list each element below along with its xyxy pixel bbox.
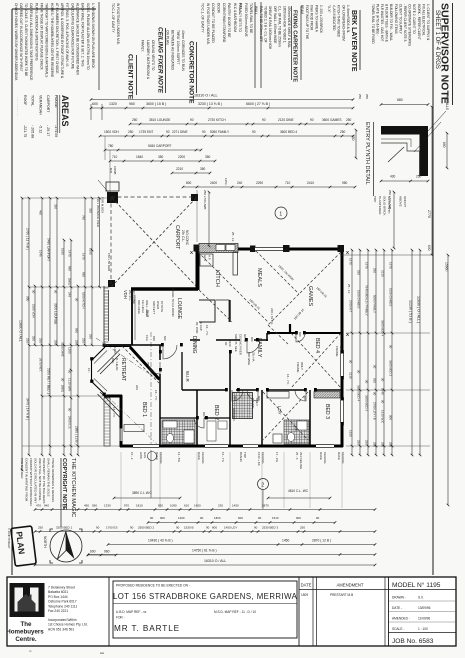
dashed diag games east <box>299 252 341 294</box>
svg-text:DATE: DATE <box>301 583 312 588</box>
svg-text:90: 90 <box>54 290 58 294</box>
svg-text:Balcatta 6021: Balcatta 6021 <box>48 590 68 594</box>
svg-text:MODEL N° 1195: MODEL N° 1195 <box>392 581 441 589</box>
border frame right <box>432 0 434 575</box>
dashed diag meals <box>199 290 232 322</box>
carport pier ne <box>191 194 198 201</box>
svg-text:14750 ( 61 ⅝ B ): 14750 ( 61 ⅝ B ) <box>192 549 217 553</box>
svg-text:SHALL REMAIN THE SOLE: SHALL REMAIN THE SOLE <box>47 458 51 497</box>
svg-text:600: 600 <box>90 550 96 554</box>
svg-text:90: 90 <box>262 118 266 122</box>
svg-text:15660: 15660 <box>445 262 449 272</box>
wall mid horizontal y345 west <box>121 344 162 346</box>
dashed diag lobby <box>263 392 308 440</box>
svg-text:CARPORT: CARPORT <box>46 95 50 113</box>
svg-text:3150 DINE: 3150 DINE <box>61 342 65 357</box>
svg-text:250: 250 <box>39 338 43 343</box>
svg-text:NO CONC: NO CONC <box>132 290 136 305</box>
svg-text:90: 90 <box>68 408 72 412</box>
right chain <box>351 250 353 455</box>
svg-text:250: 250 <box>365 94 369 99</box>
bay corner blocks <box>103 344 106 347</box>
wall bed1 west <box>120 395 123 447</box>
retreat centre line diagonal <box>96 338 160 381</box>
stray scan marks <box>100 653 104 654</box>
svg-text:16 - 2: 16 - 2 <box>130 452 134 460</box>
svg-text:BRK LAYER NOTE: BRK LAYER NOTE <box>350 10 357 72</box>
svg-text:820: 820 <box>163 336 167 341</box>
separator lines <box>254 2 256 88</box>
svg-text:& CAP: & CAP <box>199 322 203 331</box>
svg-text:Fax 240 2221: Fax 240 2221 <box>48 609 68 613</box>
wall house top <box>194 248 343 251</box>
door jamb blocks <box>161 343 164 346</box>
svg-text:16 - 7⅞: 16 - 7⅞ <box>221 452 225 462</box>
svg-text:1570: 1570 <box>365 262 369 269</box>
svg-text:960: 960 <box>26 296 30 302</box>
svg-text:FAMILY: FAMILY <box>256 338 262 358</box>
svg-text:ROOF: ROOF <box>23 95 27 106</box>
svg-text:AMENDED -: AMENDED - <box>392 617 410 621</box>
svg-text:BED 4: BED 4 <box>314 338 320 353</box>
svg-text:1820: 1820 <box>214 516 221 520</box>
svg-text:PLANS, ADDENDA & SPECIFICATION: PLANS, ADDENDA & SPECIFICATIONS <box>34 3 38 61</box>
svg-text:SCALE -: SCALE - <box>392 627 404 631</box>
header line <box>299 589 456 591</box>
svg-text:CLIENT TO SUPPLY: CLIENT TO SUPPLY <box>398 4 402 35</box>
svg-text:430: 430 <box>390 175 396 179</box>
svg-text:CONSENT IN WRITING FROM: CONSENT IN WRITING FROM <box>25 458 29 502</box>
svg-text:350: 350 <box>89 208 93 213</box>
svg-text:C.L. OF RAIL TO BE 250mm: C.L. OF RAIL TO BE 250mm <box>278 6 282 47</box>
svg-text:KITCH THRU TO BED: KITCH THRU TO BED <box>337 5 341 38</box>
svg-text:90: 90 <box>357 370 361 374</box>
svg-text:1640: 1640 <box>381 388 385 395</box>
svg-text:SCREEN: SCREEN <box>232 408 236 421</box>
north arrow pointer <box>66 531 75 559</box>
svg-text:3470 ( 14 ⅝ B ): 3470 ( 14 ⅝ B ) <box>26 398 30 420</box>
svg-text:BED 2: BED 2 <box>213 405 219 420</box>
svg-text:CEILING: CEILING <box>159 452 163 464</box>
svg-text:X: X <box>346 332 349 337</box>
carport pier sw <box>108 280 115 287</box>
wall retreat south <box>104 395 122 398</box>
svg-text:7 Delawney Street: 7 Delawney Street <box>48 586 75 590</box>
svg-text:HOMES / THE HOMEBUYERS CENTRE: HOMES / THE HOMEBUYERS CENTRE RESERVE <box>50 3 54 77</box>
svg-text:2271 DINE: 2271 DINE <box>172 130 188 134</box>
svg-text:16 -: 16 - <box>87 368 91 373</box>
svg-text:CEILING: CEILING <box>341 452 345 464</box>
svg-text:FORMAT WITHOUT EXPRESSED: FORMAT WITHOUT EXPRESSED <box>29 458 33 507</box>
svg-text:90: 90 <box>381 378 385 382</box>
svg-text:3890 C.L W.C: 3890 C.L W.C <box>132 491 152 495</box>
svg-text:4810 C.L. WC: 4810 C.L. WC <box>288 489 309 493</box>
door arc <box>163 345 177 359</box>
svg-text:600 LONG: 600 LONG <box>137 300 141 315</box>
svg-text:250: 250 <box>75 340 79 345</box>
svg-text:THRU' 100mm SOFFIT: THRU' 100mm SOFFIT <box>176 30 180 64</box>
svg-text:250: 250 <box>416 175 422 179</box>
kitchen gas hp box <box>200 254 213 266</box>
svg-text:820: 820 <box>250 337 254 342</box>
svg-text:250: 250 <box>357 440 361 445</box>
svg-text:2500 BED 2: 2500 BED 2 <box>138 526 155 530</box>
svg-text:FOLLOWING ITEMS: FOLLOWING ITEMS <box>394 4 398 34</box>
svg-text:250: 250 <box>82 338 86 343</box>
svg-text:6600 ( 27 ⅝ B ): 6600 ( 27 ⅝ B ) <box>246 102 270 106</box>
svg-text:250: 250 <box>357 270 361 275</box>
svg-text:W.I.R: W.I.R <box>185 371 190 382</box>
svg-text:2670 RET.: 2670 RET. <box>39 358 43 372</box>
svg-text:TO C.L. OF CAVITY: TO C.L. OF CAVITY <box>111 3 115 33</box>
svg-text:BETWEEN AS INDICATED: BETWEEN AS INDICATED <box>171 30 175 70</box>
svg-text:OVER: OVER <box>156 301 160 309</box>
svg-text:250: 250 <box>381 442 385 447</box>
border frame top-left segment <box>12 8 96 10</box>
svg-text:AMENDMENT: AMENDMENT <box>337 583 364 588</box>
svg-text:GAS: GAS <box>143 452 147 458</box>
title block dividers date/amendment/model <box>298 577 300 646</box>
svg-text:490: 490 <box>84 504 89 508</box>
svg-text:ENTRY PLYNTH DETAIL: ENTRY PLYNTH DETAIL <box>364 122 370 185</box>
wall retreat ne diagonal <box>130 347 160 380</box>
svg-text:17 - 2⅝: 17 - 2⅝ <box>275 452 279 462</box>
left chain <box>56 198 58 345</box>
dashed diag games-family <box>268 294 299 325</box>
svg-text:ACN 051 346 591: ACN 051 346 591 <box>48 627 74 631</box>
svg-text:SOLD OR CIRCULATED IN ANY: SOLD OR CIRCULATED IN ANY <box>33 458 37 503</box>
svg-text:1500 VDH: 1500 VDH <box>104 130 119 134</box>
svg-text:CONDUIT TO BE PLACED: CONDUIT TO BE PLACED <box>211 3 215 43</box>
svg-text:13/09/96: 13/09/96 <box>418 606 431 610</box>
svg-text:90: 90 <box>316 516 320 520</box>
right chain <box>391 250 393 455</box>
svg-text:Centre.: Centre. <box>15 636 37 643</box>
door arc <box>247 390 258 401</box>
svg-text:FLR WASTES - GAS HOT: FLR WASTES - GAS HOT <box>380 4 384 41</box>
door arc <box>247 340 260 353</box>
svg-text:SOLID BRICK: SOLID BRICK <box>382 196 386 217</box>
wall kitchen west <box>196 245 200 290</box>
svg-text:350: 350 <box>54 204 58 209</box>
svg-text:2870: 2870 <box>262 504 269 508</box>
svg-text:90: 90 <box>75 298 79 302</box>
svg-text:HOUSE: HOUSE <box>54 95 58 108</box>
dashed diag bed4 <box>291 333 341 388</box>
svg-text:230: 230 <box>218 504 223 508</box>
svg-text:3130: 3130 <box>349 372 353 379</box>
svg-text:ABOVE: ABOVE <box>398 196 402 207</box>
svg-text:350: 350 <box>205 155 211 159</box>
wall house east <box>341 248 344 447</box>
svg-text:25 - 13: 25 - 13 <box>347 284 351 294</box>
svg-text:470: 470 <box>36 504 41 508</box>
svg-text:950: 950 <box>351 135 355 141</box>
svg-text:TO C.L. OF CAVITY: TO C.L. OF CAVITY <box>201 3 205 33</box>
entry plynth detail L walls <box>381 126 428 135</box>
svg-text:900: 900 <box>389 415 393 420</box>
svg-text:PANTRY DOOR TO BE: PANTRY DOOR TO BE <box>227 3 231 38</box>
svg-text:2290: 2290 <box>256 181 263 185</box>
svg-text:294 CEILING: 294 CEILING <box>299 452 303 470</box>
svg-text:1320: 1320 <box>109 102 117 106</box>
svg-text:5050 FAMILY: 5050 FAMILY <box>210 130 230 134</box>
svg-text:820: 820 <box>298 332 302 337</box>
dashed diag games west <box>256 251 299 294</box>
svg-text:460: 460 <box>39 210 43 215</box>
svg-text:250: 250 <box>132 118 138 122</box>
svg-text:FRAME: FRAME <box>251 398 255 409</box>
svg-text:12830 ( O / ALL ): 12830 ( O / ALL ) <box>417 296 421 323</box>
svg-text:3200 BED 1: 3200 BED 1 <box>56 526 73 530</box>
left chain <box>84 198 86 345</box>
svg-text:W.C: W.C <box>294 426 298 431</box>
svg-text:3600 BED 4: 3600 BED 4 <box>280 130 297 134</box>
svg-text:820: 820 <box>303 396 307 401</box>
svg-text:-5.12: -5.12 <box>38 125 42 133</box>
svg-text:3600 GAMES: 3600 GAMES <box>322 118 342 122</box>
door arc <box>295 390 306 401</box>
logo house silhouette <box>18 594 36 612</box>
svg-text:90: 90 <box>32 290 36 294</box>
left chain <box>91 198 93 345</box>
fh walls leader lines <box>428 111 446 131</box>
svg-text:MEALS: MEALS <box>256 268 262 287</box>
bath tiled floor <box>233 393 253 419</box>
svg-text:THE RIGHT TO VARY DIMENSIONS &: THE RIGHT TO VARY DIMENSIONS & MATERIALS <box>45 3 49 77</box>
carport X diagonals <box>112 198 196 286</box>
svg-text:X: X <box>346 250 349 255</box>
svg-text:250: 250 <box>54 340 58 345</box>
svg-text:ONLY: ONLY <box>300 362 304 370</box>
svg-text:1450: 1450 <box>232 504 239 508</box>
left chain <box>63 240 65 455</box>
svg-text:250 x 50 HWB: 250 x 50 HWB <box>388 190 392 209</box>
left chain <box>28 198 30 455</box>
hws gas circle <box>148 452 157 461</box>
svg-text:350: 350 <box>158 155 164 159</box>
model cell row lines <box>389 600 457 602</box>
svg-text:OF LONGREACH FROM: OF LONGREACH FROM <box>341 5 345 41</box>
svg-text:590: 590 <box>92 504 97 508</box>
svg-text:800: 800 <box>212 526 217 530</box>
svg-text:450mm WIDE SHELF & RAIL: 450mm WIDE SHELF & RAIL <box>287 6 291 48</box>
svg-text:250: 250 <box>346 118 352 122</box>
svg-text:90: 90 <box>61 378 65 382</box>
door arc <box>148 362 160 374</box>
svg-text:MR T. BARTLE: MR T. BARTLE <box>114 624 180 633</box>
circle note 1 <box>275 207 287 219</box>
svg-text:940: 940 <box>44 504 49 508</box>
svg-text:90: 90 <box>206 526 210 530</box>
svg-text:5050 FAMILY: 5050 FAMILY <box>373 295 377 313</box>
svg-text:W.C & BATHROOM: W.C & BATHROOM <box>233 3 237 32</box>
svg-text:FIX ALL ELECTRICAL: FIX ALL ELECTRICAL <box>421 4 425 36</box>
svg-text:90: 90 <box>389 345 393 349</box>
svg-text:- REFER CLIENT NOTE 3.: - REFER CLIENT NOTE 3. <box>403 4 407 42</box>
svg-text:250: 250 <box>365 440 369 445</box>
svg-text:CORINTHIAN STANFORD: CORINTHIAN STANFORD <box>222 3 226 43</box>
svg-text:GAMES: GAMES <box>307 286 313 306</box>
svg-text:CALCULATING CLEARANCES FOR FUT: CALCULATING CLEARANCES FOR FUTURE <box>70 3 74 69</box>
svg-text:CHOICE HOMES / WORKS BY OWNER: CHOICE HOMES / WORKS BY OWNER ADDENDUM. <box>14 3 18 81</box>
svg-text:250 x 50 HWB: 250 x 50 HWB <box>203 190 207 209</box>
svg-text:680: 680 <box>397 98 403 102</box>
svg-text:1450: 1450 <box>282 539 290 543</box>
svg-text:970: 970 <box>124 504 129 508</box>
svg-text:CEILING FIXER NOTE: CEILING FIXER NOTE <box>157 27 164 94</box>
svg-text:RAKE: RAKE <box>319 452 323 460</box>
svg-text:2400 E.S.: 2400 E.S. <box>68 416 72 429</box>
svg-text:1450 LDY: 1450 LDY <box>224 526 237 530</box>
svg-text:COPYRIGHT NOTE: COPYRIGHT NOTE <box>61 458 67 510</box>
svg-text:600: 600 <box>92 102 98 106</box>
dashed diag bed4 b <box>291 333 341 388</box>
svg-text:-221.75: -221.75 <box>23 125 27 137</box>
svg-text:BEAM: BEAM <box>300 5 304 14</box>
svg-text:16310 O / ALL: 16310 O / ALL <box>194 94 218 98</box>
svg-text:AT PLUMBERS DISCRETION. 4. FIR: AT PLUMBERS DISCRETION. 4. FIRST CHOICE <box>55 3 59 74</box>
svg-text:& FLOOR TILES - BATH &: & FLOOR TILES - BATH & <box>385 4 389 43</box>
left chain <box>34 286 36 345</box>
svg-text:16 - 7⅞: 16 - 7⅞ <box>205 325 209 336</box>
svg-text:780: 780 <box>82 215 86 220</box>
svg-text:1670: 1670 <box>82 253 86 260</box>
kitchen sink <box>216 245 225 251</box>
svg-text:1810: 1810 <box>136 504 143 508</box>
bay nw window diagonal <box>92 347 105 360</box>
svg-text:IN FOOTINGS UNDER M.B.: IN FOOTINGS UNDER M.B. <box>206 3 210 45</box>
wall lounge north <box>131 287 198 290</box>
wall house south <box>120 445 343 448</box>
left extension lines <box>22 197 108 199</box>
svg-text:250: 250 <box>300 526 305 530</box>
svg-text:LAUNDRY, BATHROOM &: LAUNDRY, BATHROOM & <box>146 40 150 80</box>
wall mid horizontal y340 <box>190 339 200 341</box>
svg-text:250: 250 <box>26 338 30 343</box>
svg-text:1460: 1460 <box>178 516 185 520</box>
svg-text:820: 820 <box>257 396 261 401</box>
svg-text:930: 930 <box>373 378 377 383</box>
svg-text:900 WIDE: 900 WIDE <box>247 352 251 365</box>
left chain <box>77 286 79 455</box>
carport edge dashed <box>111 196 196 198</box>
svg-text:AND SHALL NOT BE COPIED,: AND SHALL NOT BE COPIED, <box>38 458 42 501</box>
svg-text:3900 LOUNGE: 3900 LOUNGE <box>54 303 58 324</box>
svg-text:X: X <box>190 250 193 255</box>
svg-text:13830 O / ALL: 13830 O / ALL <box>19 320 23 342</box>
dashed diag retreat <box>122 346 159 383</box>
svg-text:5180: 5180 <box>89 248 93 255</box>
svg-text:TOTAL: TOTAL <box>31 95 35 106</box>
svg-text:TO SCALE. 5. CLIENT NOMINATED: TO SCALE. 5. CLIENT NOMINATED WORK TO BE <box>24 3 28 76</box>
wall x160 <box>159 345 161 360</box>
svg-text:350: 350 <box>200 167 206 171</box>
svg-text:BED 3: BED 3 <box>324 404 330 419</box>
svg-text:2410: 2410 <box>307 181 314 185</box>
wall x310 <box>309 390 311 446</box>
svg-text:- 205.88: - 205.88 <box>31 125 35 138</box>
wall lounge west <box>131 288 133 345</box>
door arc <box>296 333 305 342</box>
svg-text:820: 820 <box>152 336 156 341</box>
svg-text:2700 KIT: 2700 KIT <box>349 300 353 312</box>
svg-text:F.H WALLS: F.H WALLS <box>445 93 449 111</box>
pantry <box>199 300 215 322</box>
svg-text:13 - 5⅝: 13 - 5⅝ <box>177 452 181 462</box>
svg-text:THESE DRAWINGS & DESIGN: THESE DRAWINGS & DESIGN <box>51 458 55 502</box>
svg-text:CARPORT: CARPORT <box>174 225 180 249</box>
svg-text:90: 90 <box>349 360 353 364</box>
svg-text:5200 KITCH: 5200 KITCH <box>82 292 86 309</box>
svg-text:FOR M.BOX: FOR M.BOX <box>101 197 105 213</box>
svg-text:1293: 1293 <box>113 347 117 354</box>
svg-text:M.B: M.B <box>109 168 113 173</box>
svg-text:- 29.17: - 29.17 <box>46 125 50 136</box>
svg-text:FRAME: FRAME <box>296 362 300 373</box>
svg-text:900: 900 <box>160 516 165 520</box>
pier top wall east <box>338 245 345 252</box>
wall wir west <box>181 352 183 390</box>
separator line <box>98 2 100 90</box>
retreat centre line vertical <box>150 332 152 448</box>
svg-text:ON PLAN.: ON PLAN. <box>165 30 169 45</box>
svg-text:FIXING CARPENTER NOTE: FIXING CARPENTER NOTE <box>292 10 298 82</box>
svg-text:710: 710 <box>112 155 118 159</box>
svg-text:19c HIGH: 19c HIGH <box>141 300 145 313</box>
wall stub x267 <box>266 333 268 341</box>
svg-text:2780 LDY / B: 2780 LDY / B <box>373 402 377 420</box>
svg-text:H.P.: H.P. <box>208 255 212 260</box>
wc dim droppers <box>262 490 264 509</box>
svg-text:90: 90 <box>365 380 369 384</box>
svg-text:5150 GAMES: 5150 GAMES <box>357 290 361 308</box>
svg-text:820: 820 <box>233 396 237 401</box>
svg-text:"X-X": "X-X" <box>327 5 331 13</box>
svg-text:PLATE (HTG & HBS) -: PLATE (HTG & HBS) - <box>375 4 379 36</box>
svg-text:2530 BED 3: 2530 BED 3 <box>262 526 279 530</box>
svg-text:3600 BED 3: 3600 BED 3 <box>365 395 369 412</box>
svg-text:DATE -: DATE - <box>392 606 402 610</box>
svg-text:TOWEL RAIL TO BE: TOWEL RAIL TO BE <box>249 3 253 34</box>
svg-text:610: 610 <box>184 504 189 508</box>
svg-text:203: 203 <box>135 385 139 390</box>
svg-text:NOTE 2. CLIENT TO: NOTE 2. CLIENT TO <box>412 4 416 34</box>
svg-text:KITCH: KITCH <box>214 270 220 287</box>
svg-text:PLYNTH: PLYNTH <box>160 301 164 312</box>
svg-text:1450: 1450 <box>194 504 201 508</box>
circle note 2 <box>258 479 269 490</box>
svg-text:90: 90 <box>96 526 100 530</box>
svg-text:1. 6mm RODS & 3L: 1. 6mm RODS & 3L <box>346 5 350 33</box>
right overall 15660 <box>447 255 449 505</box>
svg-text:SOFFETT: SOFFETT <box>152 301 156 314</box>
window top wall <box>255 247 283 251</box>
svg-text:250: 250 <box>340 130 346 134</box>
left chain <box>70 240 72 455</box>
svg-text:1: 1 <box>279 211 282 217</box>
svg-text:25c HA.: 25c HA. <box>252 352 256 362</box>
svg-text:[590]: [590] <box>61 385 65 392</box>
svg-text:PROPERTY OF THE BUILDERS: PROPERTY OF THE BUILDERS <box>42 458 46 503</box>
svg-text:3230 ( 13 ⅝ B ): 3230 ( 13 ⅝ B ) <box>198 102 222 106</box>
windows bay <box>98 350 121 373</box>
svg-text:1045: 1045 <box>39 250 43 257</box>
heading FIXING CARPENTER NOTE <box>291 6 293 80</box>
svg-text:90: 90 <box>310 118 314 122</box>
svg-text:ALLOWANCE SHOULD BE CONSIDERED: ALLOWANCE SHOULD BE CONSIDERED WHEN <box>76 3 80 76</box>
svg-text:DINING: DINING <box>191 336 197 354</box>
